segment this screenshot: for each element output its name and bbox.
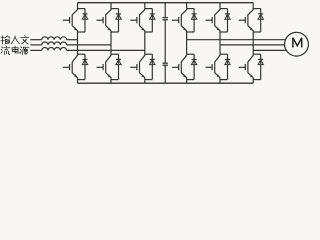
wire: cell bottom connection (145, 31, 153, 33)
wire: cell bottom connection (253, 79, 261, 81)
wire: cell bottom connection (78, 79, 86, 81)
wire: phase C to rectifier leg 3 (67, 49, 145, 51)
wire: cell top connection (145, 53, 153, 55)
wire: emitter stub to bottom rail leg 2 (110, 80, 112, 84)
wire: cell top connection (145, 8, 153, 10)
transistor Q7 (IGBT) (172, 9, 187, 32)
wire: output phase C to motor (253, 49, 286, 51)
wire: input phase C (30, 49, 42, 51)
wire: cell bottom connection (111, 79, 119, 81)
wire: capacitor C2 to bottom rail (164, 65, 166, 83)
transistor Q12 (IGBT) (239, 54, 254, 79)
motor M (285, 32, 309, 56)
wire: negative DC bus (bottom rail) (78, 82, 254, 84)
wire: cell top connection (187, 53, 195, 55)
wire: leg 1 midpoint vertical (77, 32, 79, 54)
wire: cell top connection (78, 8, 86, 10)
wire: cell top connection (78, 53, 86, 55)
wire: cell bottom connection (220, 31, 228, 33)
diode D2 (antiparallel) (82, 54, 87, 79)
wire: emitter stub to bottom rail leg 3 (144, 80, 146, 84)
wire: cell top connection (111, 53, 119, 55)
diode D4 (antiparallel) (116, 54, 121, 79)
diode D12 (antiparallel) (258, 54, 263, 79)
diode D1 (antiparallel) (82, 9, 87, 32)
transistor Q11 (IGBT) (239, 9, 254, 32)
wire: collector stub leg 5 (219, 3, 221, 9)
wire: cell top connection (220, 8, 228, 10)
inductor L1 (42, 37, 67, 40)
wire: emitter stub to bottom rail leg 5 (219, 80, 221, 84)
transistor Q6 (IGBT) (130, 54, 145, 79)
wire: capacitor C1 to capacitor C2 (164, 20, 166, 64)
wire: cell bottom connection (111, 31, 119, 33)
wire: emitter stub to bottom rail leg 1 (77, 80, 79, 84)
wire: output phase B to motor (220, 44, 285, 46)
capacitor C2 (163, 63, 168, 65)
diode D8 (antiparallel) (191, 54, 196, 79)
wire: phase A to rectifier leg 1 (67, 39, 78, 41)
transistor Q2 (IGBT) (63, 54, 78, 79)
diode D3 (antiparallel) (116, 9, 121, 32)
wire: cell top connection (111, 8, 119, 10)
wire: emitter stub to bottom rail leg 4 (186, 80, 188, 84)
wire: leg 5 midpoint vertical (219, 32, 221, 54)
diode D11 (antiparallel) (258, 9, 263, 32)
wire: leg 6 midpoint vertical (252, 32, 254, 54)
wire: leg 2 midpoint vertical (110, 32, 112, 54)
wire: cell bottom connection (220, 79, 228, 81)
transistor Q5 (IGBT) (130, 9, 145, 32)
inductor L2 (42, 42, 67, 45)
wire: cell top connection (253, 53, 261, 55)
inductor L3 (42, 48, 67, 51)
transistor Q4 (IGBT) (97, 54, 112, 79)
wire: cell bottom connection (78, 31, 86, 33)
wire: leg 3 midpoint vertical (144, 32, 146, 54)
wire: output phase A to motor (187, 39, 286, 41)
diode D7 (antiparallel) (191, 9, 196, 32)
label: input AC source text 输入交流电源 (1, 35, 29, 54)
wire: cell top connection (220, 53, 228, 55)
wire: emitter stub to bottom rail leg 6 (252, 80, 254, 84)
transistor Q9 (IGBT) (206, 9, 221, 32)
wire: input phase B (30, 44, 42, 46)
transistor Q10 (IGBT) (206, 54, 221, 79)
wire: cell bottom connection (145, 79, 153, 81)
wire: collector stub leg 2 (110, 3, 112, 9)
wire: collector stub leg 4 (186, 3, 188, 9)
wire: top rail to capacitor C1 (164, 3, 166, 18)
wire: leg 4 midpoint vertical (186, 32, 188, 54)
wire: positive DC bus (top rail) (78, 2, 254, 4)
diode D5 (antiparallel) (150, 9, 155, 32)
wire: collector stub leg 1 (77, 3, 79, 9)
wire: input phase A (30, 39, 42, 41)
diode D9 (antiparallel) (225, 9, 230, 32)
wire: collector stub leg 3 (144, 3, 146, 9)
wire: collector stub leg 6 (252, 3, 254, 9)
transistor Q1 (IGBT) (63, 9, 78, 32)
capacitor C1 (163, 18, 168, 20)
wire: cell top connection (253, 8, 261, 10)
wire: cell bottom connection (253, 31, 261, 33)
wire: cell bottom connection (187, 79, 195, 81)
wire: phase B to rectifier leg 2 (67, 44, 111, 46)
diode D10 (antiparallel) (225, 54, 230, 79)
transistor Q3 (IGBT) (97, 9, 112, 32)
wire: cell bottom connection (187, 31, 195, 33)
wire: cell top connection (187, 8, 195, 10)
diode D6 (antiparallel) (150, 54, 155, 79)
transistor Q8 (IGBT) (172, 54, 187, 79)
